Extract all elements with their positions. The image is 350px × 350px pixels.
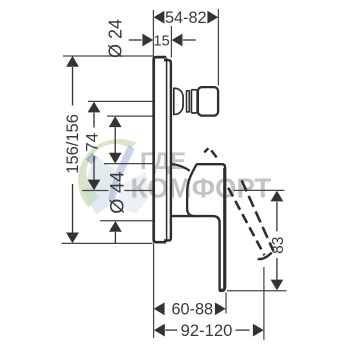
knob flange [174,88,183,114]
knob main C [198,87,218,116]
ref 83 top y190.4 [234,189,285,191]
leader bottom y243.4 [62,242,153,244]
periwinkle band upper [115,145,135,179]
svg-text:Ø 24: Ø 24 [105,19,125,58]
dimension Ø44 outside bottom arrow [109,221,122,243]
watermark logo ball [78,139,149,215]
dashed lever line L2 [242,180,274,251]
leader handle axis y190.5 left part [82,190,109,192]
dimension knob projection (unlabeled) [109,116,122,163]
handle outline [172,164,225,291]
handle dome arc [172,164,190,171]
svg-text:ГДЕ: ГДЕ [140,148,186,175]
dimension 54-82 [154,11,219,24]
handle bar bottom cap [219,289,224,292]
fixture: wall plate back rect (right edge) [164,60,171,240]
periwinkle band lower [108,174,121,203]
pale blue left region [86,156,119,215]
dimension 60-88 [154,302,226,315]
svg-text:15: 15 [154,33,170,49]
svg-text:54-82: 54-82 [165,9,207,27]
svg-text:Ø 44: Ø 44 [107,171,129,213]
svg-text:60-88: 60-88 [171,301,213,319]
leader knob axis y101.4 [88,100,153,102]
leader dome top y163.6 [104,163,153,165]
dimension 156/156 [66,56,79,243]
leader knob bottom y116.1 [107,115,153,117]
svg-text:156/156: 156/156 [64,114,82,174]
dimension 15 [129,34,196,47]
svg-text:74: 74 [83,133,102,152]
knob sleeve B [191,90,197,113]
ext 60-88 right x226 [225,293,227,314]
dashed lever cap [258,253,272,260]
ext 92-120 right x263.9 [263,267,265,340]
dashed lever arc dash B [211,150,216,157]
ext 54-82 right [217,9,219,86]
dark blue tick [86,153,98,165]
dimension 92-120 [154,324,264,337]
green crescent [78,139,136,207]
ext bottom-left x153.6 [153,243,155,338]
dashed lever line L1 [228,188,264,256]
handle hub left lower edge [187,164,197,216]
leader dome bottom y220.8 [100,220,153,222]
extension and leader lines [62,9,287,340]
leader handle axis y190.5 right part [124,190,152,192]
ext 15 right [170,26,172,58]
knob ring A [187,91,190,112]
dimension 83 [271,191,284,291]
ext 54-82 left [152,10,154,56]
dimension 74 [88,102,101,191]
fixture: wall plate front rect [154,57,167,242]
white slash gap [91,154,109,182]
dashed lever arc dash A [204,148,208,152]
ref 83 bottom y290.8 [227,290,287,292]
handle bar right edge emphasis [223,168,226,289]
svg-text:92-120: 92-120 [181,321,233,340]
leader top y56 [63,55,154,57]
pale blue right patch [115,172,149,214]
